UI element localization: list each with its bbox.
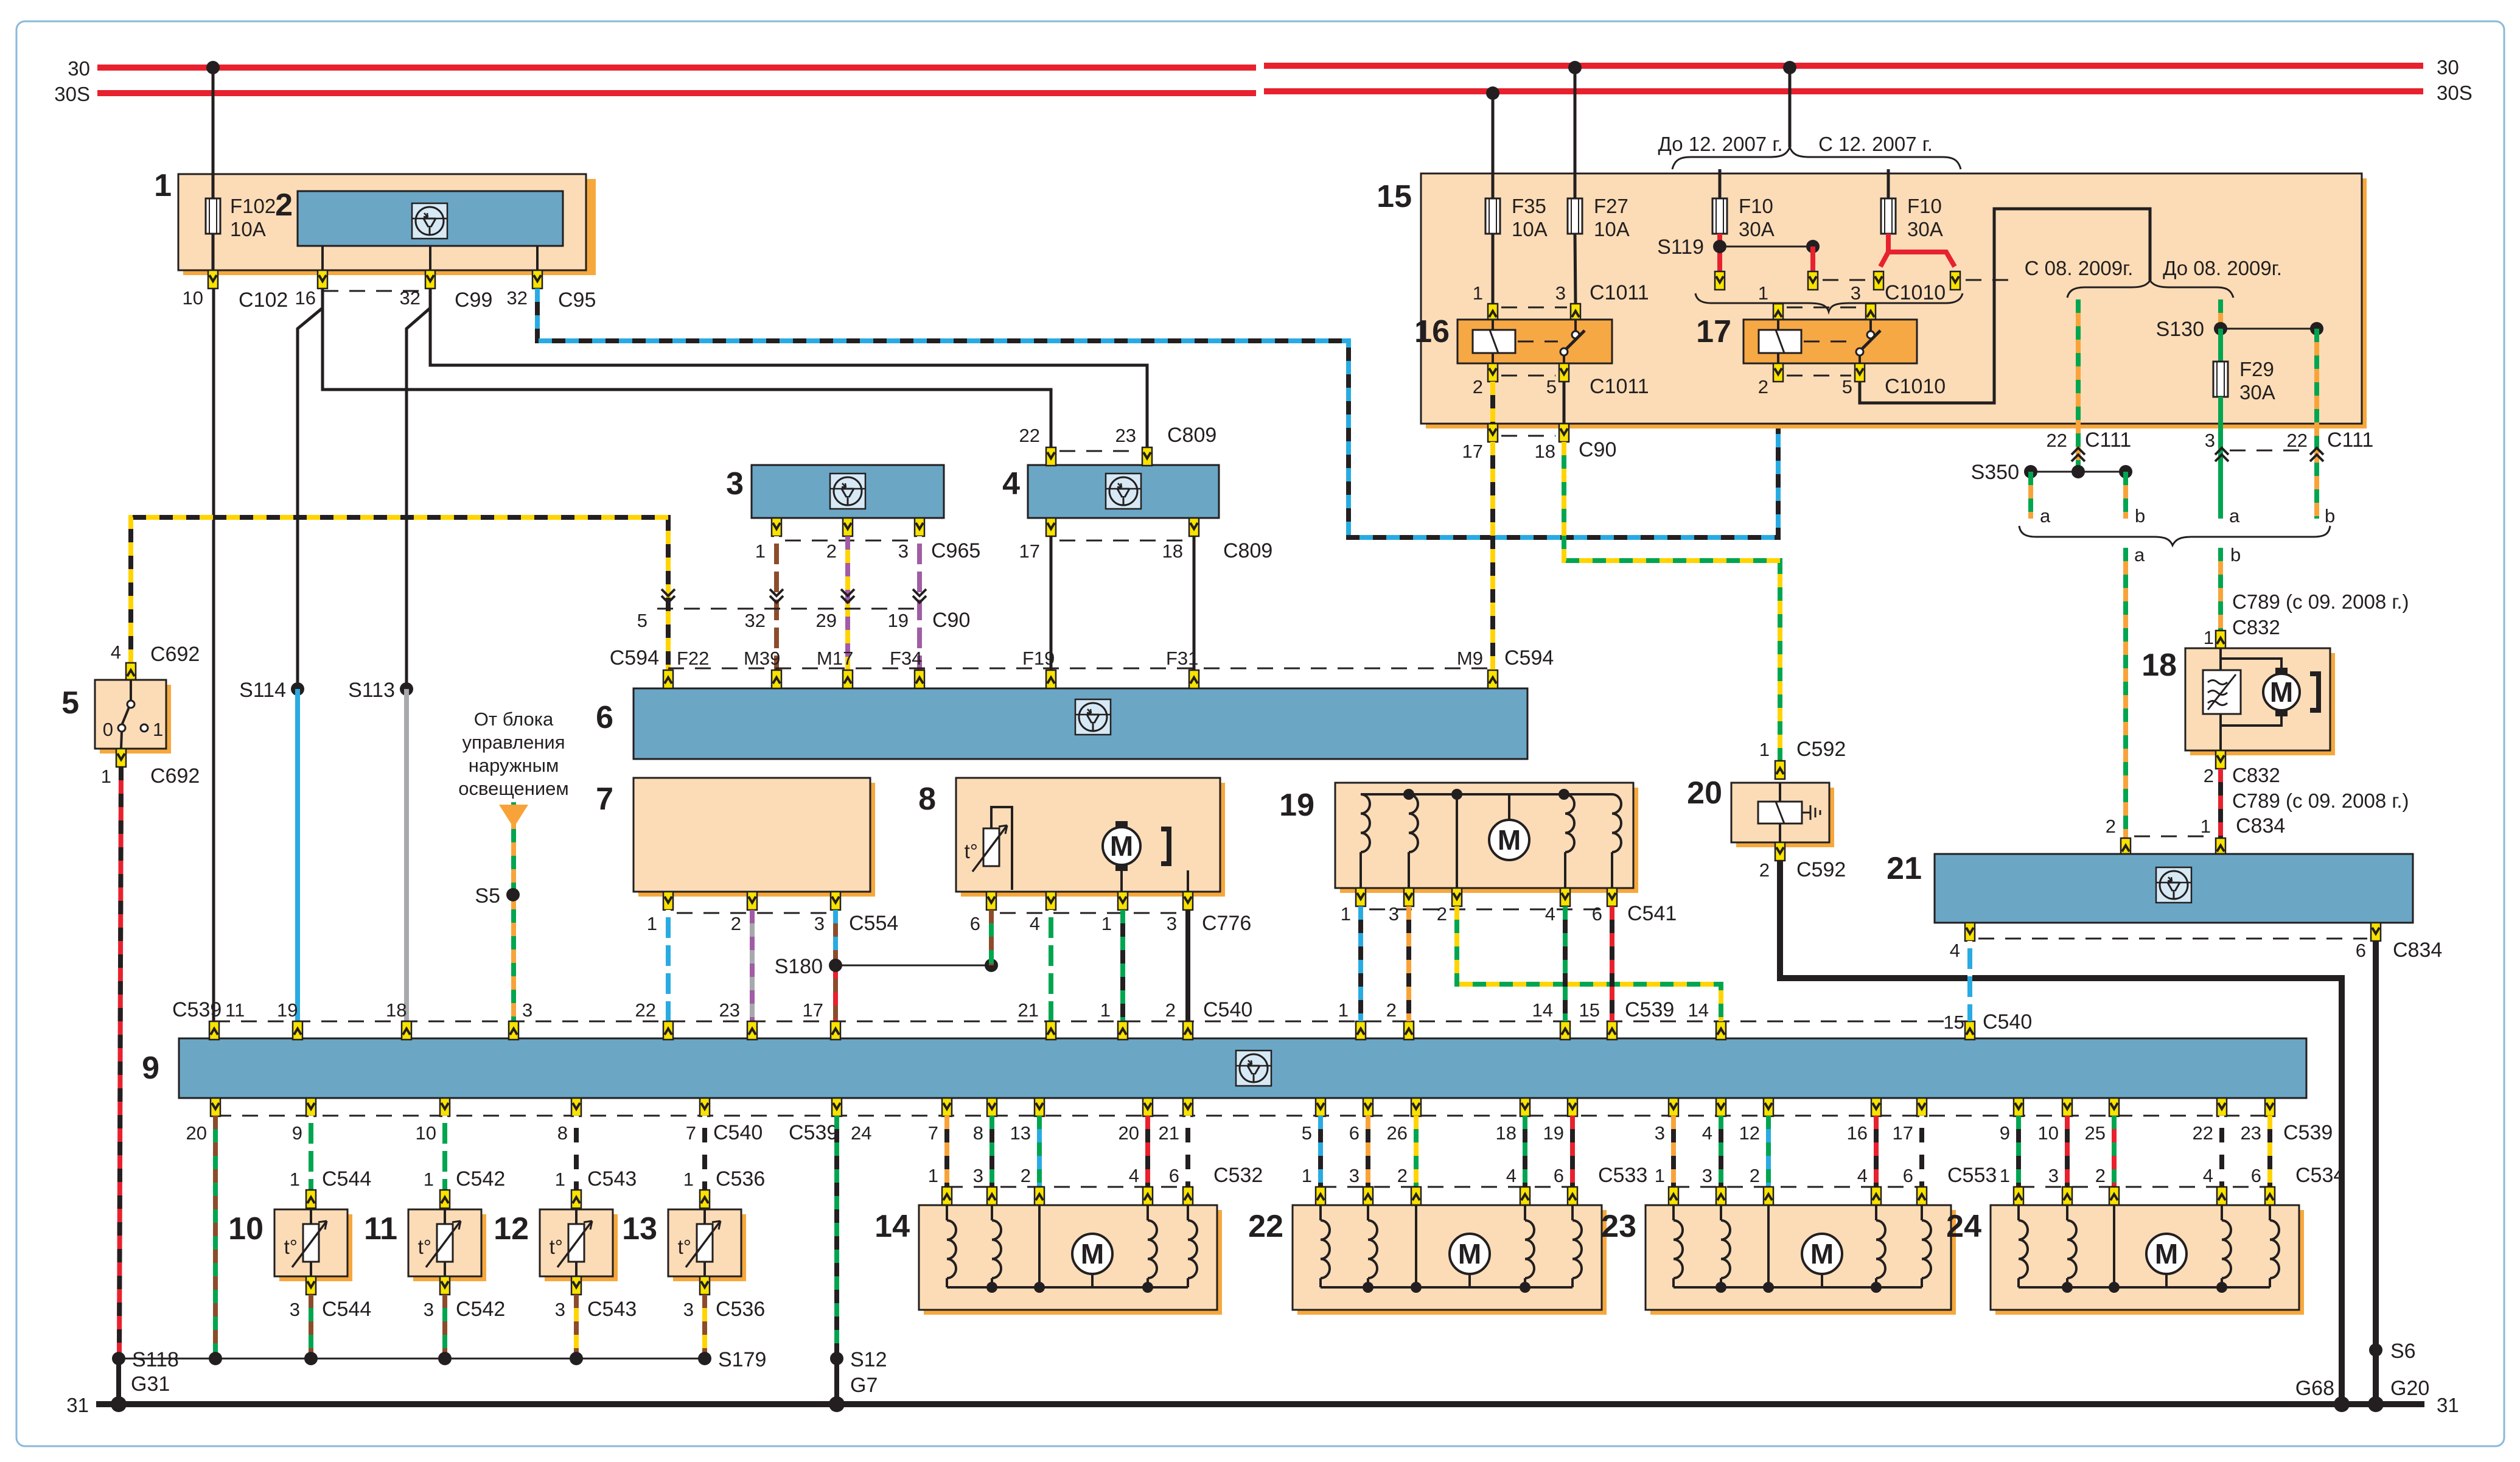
svg-text:C540: C540 <box>713 1121 763 1144</box>
svg-text:C776: C776 <box>1202 912 1251 935</box>
svg-text:10: 10 <box>416 1122 436 1144</box>
wire block9 pin5 lightblue-black to block22 pin1 <box>1318 1116 1323 1187</box>
sensor block 11 labels CC542 <box>424 1167 506 1191</box>
svg-text:C90: C90 <box>932 609 970 632</box>
svg-text:C592: C592 <box>1796 738 1846 761</box>
svg-text:наружным: наружным <box>469 755 559 776</box>
wire block18 pin2 red-black to block21 pin1 <box>2218 769 2223 838</box>
svg-text:5: 5 <box>61 685 79 721</box>
svg-text:9: 9 <box>2000 1122 2010 1144</box>
wire block3 pin3 violet-white <box>917 536 922 670</box>
motor block 24 <box>1946 1205 2304 1315</box>
connector C594 dashed row <box>668 668 1488 670</box>
wire rail30 to version bracket <box>1783 61 1796 74</box>
pins of C534 <box>2014 1187 2275 1205</box>
svg-text:C102: C102 <box>239 289 288 312</box>
svg-text:4: 4 <box>1129 1165 1139 1186</box>
wire block19 pin2 green-yellow routed <box>1457 906 1721 1021</box>
version braces 2007 <box>1672 147 1790 169</box>
transistor icon U2 <box>412 203 447 239</box>
motor block 23 <box>1601 1205 1956 1315</box>
wire block9 pin8b green-black to block14 pin3 <box>990 1116 994 1187</box>
wire block19 pin3 orange-black <box>1406 906 1411 1021</box>
svg-text:3: 3 <box>973 1165 983 1186</box>
fuse F10 30A (before 12.2007) <box>1712 195 1775 240</box>
svg-text:C532: C532 <box>1213 1164 1263 1187</box>
svg-text:C809: C809 <box>1223 539 1272 562</box>
svg-text:G68: G68 <box>2295 1377 2334 1400</box>
svg-text:S118: S118 <box>132 1348 179 1371</box>
wire S114-19 <box>295 689 300 1021</box>
svg-text:C111: C111 <box>2085 428 2131 452</box>
svg-text:M: M <box>2270 676 2293 708</box>
block 7 module <box>596 778 875 897</box>
wire block9 pin20 green-brown to splice bus <box>213 1116 218 1359</box>
svg-text:10A: 10A <box>1594 218 1630 240</box>
svg-text:22: 22 <box>2193 1122 2213 1144</box>
block 4 module <box>1002 465 1219 518</box>
svg-text:C789 (с 09. 2008 г.): C789 (с 09. 2008 г.) <box>2232 789 2409 812</box>
dashes near C1010 bypass pins <box>1823 279 1868 281</box>
svg-text:C540: C540 <box>1983 1010 2032 1034</box>
motor M in block18 <box>2263 674 2300 710</box>
svg-text:3: 3 <box>1555 282 1566 304</box>
svg-text:1: 1 <box>1100 999 1111 1021</box>
wire F102 to pin C102 <box>212 234 215 270</box>
wire S119 stub red <box>1810 247 1815 271</box>
svg-text:4: 4 <box>1857 1165 1868 1186</box>
wire block13 lower wire <box>702 1295 707 1359</box>
svg-text:G7: G7 <box>850 1374 878 1397</box>
svg-text:15: 15 <box>1944 1012 1964 1033</box>
block 5 switch <box>61 680 171 754</box>
svg-text:30A: 30A <box>1739 218 1775 240</box>
relay17 top pins C1010 <box>1758 281 1946 322</box>
svg-text:29: 29 <box>816 610 837 631</box>
svg-text:C99: C99 <box>455 289 492 312</box>
block 18 auxiliary fan <box>2141 648 2335 755</box>
wire S113-18 <box>404 689 409 1021</box>
svg-text:2: 2 <box>1437 903 1447 925</box>
block 1 fuse box <box>154 168 596 275</box>
svg-text:1: 1 <box>153 719 163 740</box>
wire block3 pin2 yellow-violet <box>845 536 850 670</box>
svg-text:17: 17 <box>1462 441 1483 462</box>
svg-text:3: 3 <box>522 999 532 1021</box>
block8 pins C776 <box>970 892 1252 935</box>
pin top of block 12 <box>571 1190 581 1208</box>
block21 top pins C834 <box>2106 814 2286 856</box>
svg-text:1: 1 <box>1338 999 1349 1021</box>
svg-text:19: 19 <box>1279 788 1314 823</box>
block 15 engine fuse box <box>1377 173 2367 428</box>
svg-text:9: 9 <box>142 1051 159 1086</box>
svg-text:2: 2 <box>2106 816 2116 837</box>
temperature sensor block 12 <box>494 1208 618 1281</box>
svg-text:2: 2 <box>1750 1165 1760 1186</box>
svg-text:17: 17 <box>1019 540 1040 562</box>
svg-text:2: 2 <box>731 913 741 934</box>
block 2 control module <box>275 187 563 246</box>
svg-text:M17: M17 <box>817 648 853 669</box>
wire block9 pin19b red-black to block22 pin6 <box>1570 1116 1575 1187</box>
svg-text:3: 3 <box>1349 1165 1359 1186</box>
splice S179 <box>698 1352 711 1365</box>
svg-text:S114: S114 <box>239 679 286 702</box>
svg-text:C789 (с 09. 2008 г.): C789 (с 09. 2008 г.) <box>2232 590 2409 613</box>
wire pin16 to S114 and block4 pin22 <box>298 289 323 689</box>
svg-text:18: 18 <box>1162 540 1183 562</box>
wire relay16 pin5 black <box>1563 382 1566 424</box>
ground G31 <box>111 1396 127 1412</box>
wire block9 pin8 black-white to block12 <box>574 1116 579 1190</box>
svg-text:3: 3 <box>726 466 744 502</box>
labels below block9 <box>186 1121 2333 1144</box>
wire block9 pin18b green-black to block22 pin4 <box>1523 1116 1527 1187</box>
transistor icon U4 <box>1106 474 1141 509</box>
svg-text:3: 3 <box>1851 282 1861 304</box>
svg-text:18: 18 <box>1535 441 1555 462</box>
svg-text:1: 1 <box>1758 282 1768 304</box>
transistor icon U21 <box>2156 867 2191 903</box>
svg-text:1: 1 <box>1759 739 1770 760</box>
svg-text:14: 14 <box>874 1209 910 1244</box>
svg-text:F27: F27 <box>1594 195 1628 217</box>
svg-text:3: 3 <box>683 1299 694 1320</box>
block7 pins C554 <box>647 892 899 935</box>
svg-text:1: 1 <box>1341 903 1351 925</box>
svg-text:S180: S180 <box>775 955 823 978</box>
wire block10 lower wire <box>309 1295 313 1359</box>
svg-text:C592: C592 <box>1796 858 1846 881</box>
wire branch a orange-green to S350 <box>2076 299 2081 472</box>
wire brace to F10 right <box>1887 169 1890 198</box>
svg-text:21: 21 <box>1159 1122 1179 1144</box>
fuse F102 10A <box>206 195 276 240</box>
splice S114 <box>291 682 304 696</box>
wire C99 to S113 and block4 pin23 <box>407 289 430 689</box>
block3 pins C965 1,2,3 <box>755 518 981 562</box>
svg-text:1: 1 <box>424 1169 434 1190</box>
connector pin C95-32 <box>507 270 596 312</box>
svg-text:C542: C542 <box>456 1167 505 1191</box>
svg-text:M: M <box>2155 1238 2178 1270</box>
svg-text:C543: C543 <box>587 1167 637 1191</box>
svg-text:C539: C539 <box>172 998 222 1021</box>
block 20 relay <box>1687 775 1834 847</box>
svg-text:1: 1 <box>647 913 657 934</box>
connector pin C692-1 <box>101 749 200 788</box>
pin bottom of block 10 <box>306 1276 316 1295</box>
svg-text:F34: F34 <box>890 648 922 669</box>
svg-text:11: 11 <box>225 999 245 1021</box>
svg-text:C1011: C1011 <box>1590 375 1649 398</box>
svg-text:2: 2 <box>1021 1165 1031 1186</box>
svg-text:0: 0 <box>103 719 113 740</box>
svg-text:От блока: От блока <box>474 708 554 730</box>
temperature sensor block 11 <box>364 1208 486 1281</box>
svg-text:t°: t° <box>418 1236 431 1258</box>
svg-text:С 12. 2007 г.: С 12. 2007 г. <box>1818 133 1933 155</box>
svg-text:F10: F10 <box>1739 195 1773 217</box>
svg-text:22: 22 <box>2287 430 2308 451</box>
wire F29 down green <box>2218 397 2223 519</box>
motor M inside block8 <box>1103 827 1140 865</box>
svg-text:19: 19 <box>888 610 909 631</box>
connector pin C102-10 <box>183 270 288 312</box>
ground G68 <box>2334 1396 2350 1412</box>
svg-text:b: b <box>2325 505 2335 526</box>
filter symbol in block18 <box>2203 670 2241 714</box>
wire C90-18 green-yellow to block20 C592 <box>1564 442 1780 761</box>
wire block9 pin9b green-black to block24 pin1 <box>2016 1116 2021 1187</box>
wire wire a to block21 pin2 <box>2123 548 2128 838</box>
svg-text:6: 6 <box>1592 903 1602 925</box>
pins of C533 <box>1316 1187 1577 1205</box>
pins below S119 <box>1715 271 1725 290</box>
svg-text:7: 7 <box>596 782 613 817</box>
relay 17 <box>1696 314 1917 363</box>
svg-text:6: 6 <box>1903 1165 1913 1186</box>
pin bottom of block 11 <box>440 1276 450 1295</box>
svg-text:1: 1 <box>755 540 766 562</box>
wire block9 pin7b orange-black to block14 pin1 <box>944 1116 949 1187</box>
wire block7 pin1 lightblue-white <box>666 910 671 1021</box>
pin top of block 11 <box>440 1190 450 1208</box>
svg-text:C544: C544 <box>322 1298 371 1321</box>
transistor icon U9 <box>1236 1051 1271 1086</box>
svg-text:C832: C832 <box>2232 616 2280 638</box>
sensor block 13 labels CC536 <box>683 1167 766 1191</box>
svg-text:20: 20 <box>1119 1122 1139 1144</box>
svg-text:31: 31 <box>66 1394 89 1416</box>
svg-text:3: 3 <box>898 540 909 562</box>
svg-text:До 08. 2009г.: До 08. 2009г. <box>2163 257 2282 279</box>
svg-text:1: 1 <box>555 1169 565 1190</box>
svg-text:2: 2 <box>275 187 293 223</box>
svg-text:M: M <box>1458 1238 1481 1270</box>
svg-text:4: 4 <box>2203 1165 2213 1186</box>
wire branch b orange-green to S130 <box>2218 299 2223 329</box>
svg-text:t°: t° <box>678 1236 691 1258</box>
C111 pass-through chevrons <box>2071 448 2085 461</box>
wire block9 pin16 red-black to block23 pin4 <box>1874 1116 1879 1187</box>
pin top of block 10 <box>306 1190 316 1208</box>
svg-text:M: M <box>1810 1238 1834 1270</box>
wire F10a red <box>1717 234 1722 271</box>
svg-text:22: 22 <box>2047 430 2067 451</box>
svg-text:F22: F22 <box>677 648 709 669</box>
wire rail30 to F102 <box>206 61 220 74</box>
svg-text:C533: C533 <box>1598 1164 1647 1187</box>
svg-text:C539: C539 <box>2283 1121 2333 1144</box>
block 21 module <box>1887 851 2413 923</box>
svg-text:6: 6 <box>2251 1165 2261 1186</box>
svg-text:b: b <box>2135 505 2145 526</box>
svg-text:F102: F102 <box>230 195 276 217</box>
connector pin C99-32 <box>400 270 493 312</box>
svg-text:6: 6 <box>970 913 980 934</box>
svg-text:4: 4 <box>1950 940 1960 961</box>
splice S5 <box>506 888 520 901</box>
temperature sensor block 10 <box>228 1208 352 1281</box>
C90 pins at block15 bottom <box>1462 424 1617 462</box>
svg-text:3: 3 <box>1167 913 1177 934</box>
connector C532 row <box>928 1164 1263 1187</box>
motor block 14 <box>874 1205 1222 1315</box>
svg-text:t°: t° <box>550 1236 563 1258</box>
svg-text:10A: 10A <box>1512 218 1548 240</box>
svg-text:22: 22 <box>635 999 656 1021</box>
svg-text:12: 12 <box>494 1211 529 1247</box>
splice bus S118-S179 <box>119 1358 705 1360</box>
svg-text:5: 5 <box>1842 376 1852 397</box>
sensor block 12 labels CC543 <box>555 1167 637 1191</box>
relay 16 <box>1414 314 1612 363</box>
svg-text:C965: C965 <box>931 539 980 562</box>
wire rail30S to F35 <box>1486 86 1499 100</box>
svg-text:S113: S113 <box>348 679 395 702</box>
svg-text:7: 7 <box>928 1122 938 1144</box>
svg-text:C1010: C1010 <box>1885 375 1946 398</box>
wire block9 pin10b red-black to block24 pin3 <box>2065 1116 2070 1187</box>
svg-text:5: 5 <box>1302 1122 1312 1144</box>
wire block4 pin17 to block6 F19 <box>1050 536 1053 670</box>
svg-text:1: 1 <box>101 766 111 787</box>
svg-text:17: 17 <box>1696 314 1731 349</box>
block2 output stubs <box>323 246 537 270</box>
block8 internal loop <box>991 807 1012 890</box>
svg-text:S350: S350 <box>1971 461 2019 484</box>
svg-text:32: 32 <box>507 287 528 309</box>
svg-text:2: 2 <box>826 540 837 562</box>
svg-text:C95: C95 <box>558 289 596 312</box>
wire C90-17 yellow-black to block6 M9 <box>1490 442 1495 670</box>
splice S113 <box>400 682 413 696</box>
svg-text:16: 16 <box>295 287 316 309</box>
power rail 30 <box>68 56 2459 80</box>
svg-text:15: 15 <box>1579 999 1600 1021</box>
svg-text:16: 16 <box>1414 314 1450 349</box>
svg-text:t°: t° <box>284 1236 298 1258</box>
svg-text:30S: 30S <box>54 83 90 105</box>
svg-text:C542: C542 <box>456 1298 505 1321</box>
svg-text:2: 2 <box>2204 765 2214 786</box>
svg-text:C543: C543 <box>587 1298 637 1321</box>
pin block20-1 <box>1775 761 1785 779</box>
splice S130 <box>2221 328 2317 330</box>
wire block8 pin1 green-black <box>1120 910 1125 1021</box>
wire F27 to relay16 pin3 <box>1575 234 1576 304</box>
svg-text:C832: C832 <box>2232 764 2280 786</box>
wire block9 pin10 green-white to block11 <box>442 1116 447 1190</box>
svg-text:1: 1 <box>2201 816 2211 837</box>
block4 top pins C809 22,23 <box>1019 424 1217 466</box>
svg-text:9: 9 <box>292 1122 302 1144</box>
svg-text:управления: управления <box>462 732 565 753</box>
relay17 bottom pins C1010 <box>1758 363 1946 398</box>
svg-text:19: 19 <box>1543 1122 1564 1144</box>
svg-text:3: 3 <box>424 1299 434 1320</box>
svg-text:3: 3 <box>2048 1165 2059 1186</box>
fuse F35 10A <box>1485 195 1548 240</box>
svg-text:M: M <box>1110 830 1133 862</box>
block9 top pins <box>209 1021 1975 1040</box>
svg-text:3: 3 <box>290 1299 300 1320</box>
svg-text:F31: F31 <box>1166 648 1198 669</box>
svg-text:31: 31 <box>2437 1394 2459 1416</box>
svg-text:C1010: C1010 <box>1885 281 1946 304</box>
svg-text:1: 1 <box>683 1169 694 1190</box>
svg-text:23: 23 <box>2241 1122 2261 1144</box>
svg-text:M: M <box>1498 824 1521 856</box>
wire block5 pin1 red-black down to S118 <box>119 767 121 1359</box>
svg-text:C554: C554 <box>849 912 898 935</box>
svg-text:C1011: C1011 <box>1590 281 1649 304</box>
svg-text:30: 30 <box>2437 56 2459 79</box>
svg-text:12: 12 <box>1739 1122 1760 1144</box>
wire block9 pin25 red-green to block24 pin2 <box>2112 1116 2117 1187</box>
svg-text:2: 2 <box>1386 999 1397 1021</box>
wire wire b to block18 pin1 <box>2218 548 2223 631</box>
motor block 22 <box>1248 1205 1607 1315</box>
svg-text:C534: C534 <box>2295 1164 2345 1187</box>
pins of C532 <box>942 1187 1193 1205</box>
pin bottom of block 13 <box>700 1276 710 1295</box>
svg-text:C692: C692 <box>150 643 200 666</box>
wire S130 to F29 green <box>2218 329 2223 362</box>
splice S180 <box>836 965 991 967</box>
svg-text:16: 16 <box>1847 1122 1868 1144</box>
block18 internal wires <box>2221 649 2281 750</box>
svg-text:a: a <box>2040 505 2051 526</box>
svg-text:3: 3 <box>555 1299 565 1320</box>
connector C90 dashed row <box>657 608 920 610</box>
block 6 module <box>596 688 1527 759</box>
svg-text:21: 21 <box>1018 999 1039 1021</box>
svg-text:7: 7 <box>686 1122 696 1144</box>
svg-text:C539: C539 <box>1625 998 1674 1021</box>
connector C533 row <box>1302 1164 1648 1187</box>
connector pin 16 <box>295 270 327 309</box>
svg-text:2: 2 <box>1473 376 1483 397</box>
svg-text:32: 32 <box>745 610 766 631</box>
svg-text:2: 2 <box>1397 1165 1408 1186</box>
pin top of block 13 <box>700 1190 710 1208</box>
merge brace ab <box>2019 526 2330 545</box>
svg-text:C536: C536 <box>716 1298 765 1321</box>
wire block11 lower wire <box>442 1295 447 1359</box>
wire rail30 to F27 <box>1568 61 1582 74</box>
t-sensor inside block8 <box>983 828 999 866</box>
transistor icon U3 <box>830 474 865 509</box>
fuse F27 10A <box>1568 195 1630 240</box>
wire block7 pin3 brown-red to block9 pin17 <box>833 965 838 1021</box>
wire S350 stub b <box>2123 472 2128 519</box>
svg-text:1: 1 <box>2204 627 2214 648</box>
block 8 heater fan unit <box>918 778 1225 897</box>
svg-text:F10: F10 <box>1907 195 1942 217</box>
wire block19 pin4 green-black <box>1563 906 1568 1021</box>
wire relay16 pin2 yellow-black <box>1490 382 1495 424</box>
svg-text:30A: 30A <box>1907 218 1943 240</box>
text from exterior lighting control unit <box>458 708 569 799</box>
svg-text:24: 24 <box>1946 1209 1981 1244</box>
wire block8 pin3 black <box>1185 910 1190 1021</box>
wire block9 pin20b red-black to block14 pin4 <box>1145 1116 1150 1187</box>
svg-text:C536: C536 <box>716 1167 765 1191</box>
svg-text:18: 18 <box>2141 648 2177 683</box>
